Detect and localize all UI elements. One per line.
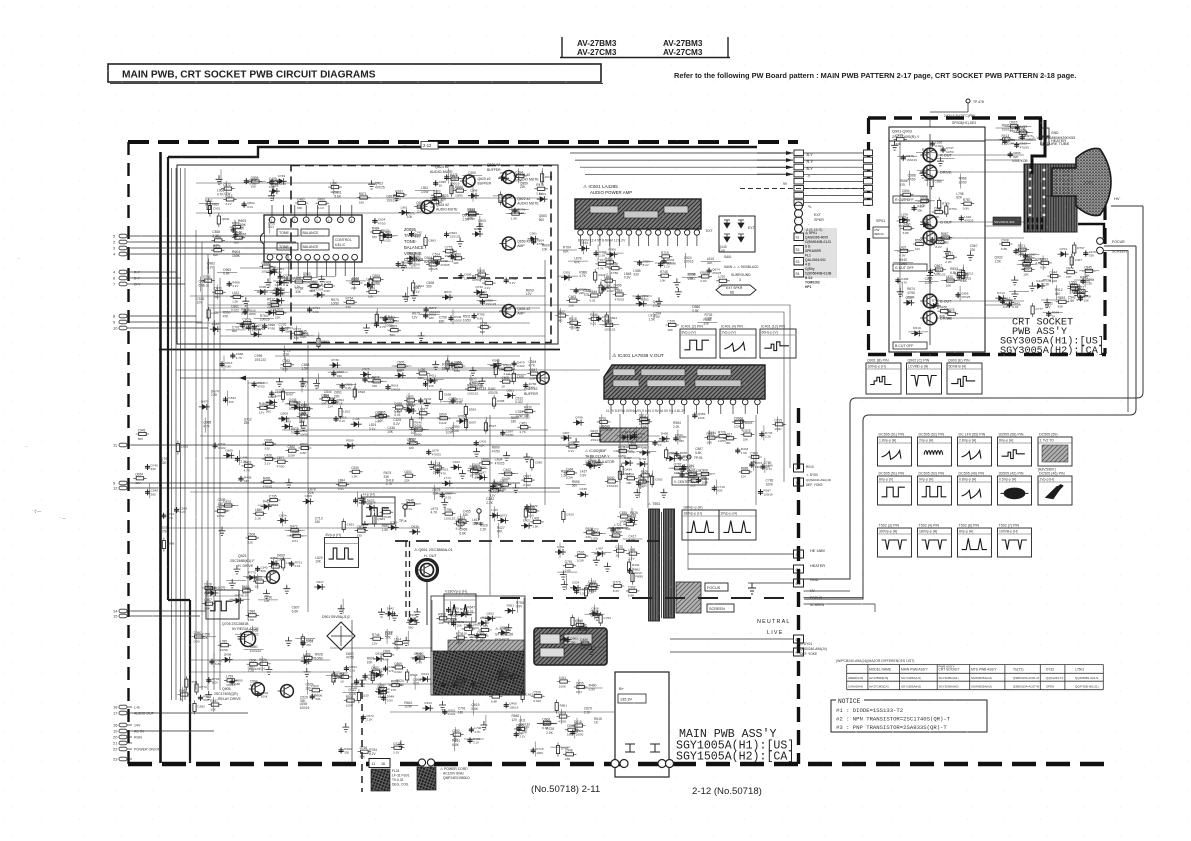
capacitor R872 [424, 307, 429, 313]
wire audio row [205, 197, 545, 199]
resistor L520 [576, 627, 590, 630]
capacitor L540 [255, 566, 260, 572]
picture tube gun grid [1056, 170, 1072, 194]
capacitor R796 [512, 208, 517, 214]
wire [636, 450, 656, 452]
resistor C695 [512, 370, 515, 384]
wire [604, 252, 624, 254]
terminal box J1-7 [794, 193, 804, 199]
wire [387, 660, 389, 675]
crt pin block [1024, 164, 1077, 232]
resistor C583 [281, 363, 295, 366]
capacitor D643 [1007, 302, 1012, 308]
resistor D753 [380, 230, 383, 244]
connector pin 11 [119, 443, 127, 447]
resistor C514 [430, 257, 444, 260]
capacitor R789 [472, 313, 477, 319]
resistor C427 [1070, 254, 1073, 268]
resistor R463 [242, 464, 256, 467]
wire bottom a [190, 659, 330, 661]
wire [431, 260, 451, 262]
resistor Q759 [1021, 259, 1035, 262]
resistor C433 [322, 284, 336, 287]
resistor Q660 [437, 417, 451, 420]
capacitor L442 [246, 325, 251, 331]
ground [469, 367, 476, 376]
capacitor D496 [467, 738, 472, 744]
wire [600, 279, 602, 294]
wire [445, 178, 465, 180]
resistor C852 [462, 627, 476, 630]
diode R906 [607, 252, 618, 258]
wire pin11 run [132, 444, 648, 446]
wire [374, 510, 376, 525]
wire [451, 180, 453, 195]
resistor C808 [698, 472, 712, 475]
resistor Q807 [202, 602, 216, 605]
diode R891 [265, 310, 276, 316]
resistor R887 [317, 335, 320, 349]
resistor C836 [617, 515, 631, 518]
wire [386, 629, 388, 644]
wire [676, 472, 696, 474]
resistor C866 [732, 420, 746, 423]
diode Q670 [199, 404, 210, 410]
connector pin 4 [119, 252, 127, 256]
wire [542, 168, 544, 183]
resistor C545 [609, 534, 623, 537]
capacitor R641 [451, 621, 456, 627]
wire [601, 414, 603, 429]
resistor C409 [267, 181, 281, 184]
wire [270, 291, 290, 293]
ground [1044, 299, 1051, 308]
resistor R833 [466, 212, 480, 215]
resistor C595 [514, 727, 528, 730]
transistor Q902 DRIVE [923, 165, 937, 179]
ic Z0055 inner BALANCE box2 [301, 243, 329, 250]
diode C628 [366, 505, 377, 511]
wire [214, 320, 216, 335]
ic IC401 pin 11 [730, 399, 736, 405]
wire [582, 239, 584, 254]
wire [578, 679, 580, 694]
wire [590, 455, 592, 470]
resistor R846 [588, 294, 602, 297]
wire [643, 468, 645, 483]
wire bundle vertical [195, 230, 197, 690]
wire long c [176, 369, 600, 371]
wire [641, 412, 643, 427]
label box G CUT OFF [893, 264, 927, 271]
resistor L530 [366, 290, 380, 293]
resistor Q502 [491, 485, 505, 488]
wire [909, 171, 911, 186]
wire bottom e [352, 683, 433, 685]
capacitor C697 [1023, 253, 1028, 259]
resistor L797 [716, 279, 730, 282]
ground [402, 293, 409, 302]
wire [586, 533, 606, 535]
isolation dashed line [500, 597, 795, 599]
wire [568, 260, 588, 262]
heater thick wire [1032, 120, 1045, 174]
resistor Q436 [412, 428, 426, 431]
capacitor Q703 [1081, 278, 1086, 284]
terminal W [794, 464, 804, 472]
capacitor R799 [206, 677, 211, 683]
diode C575 [360, 371, 371, 377]
resistor L512 [230, 295, 244, 298]
capacitor R589 [383, 316, 388, 322]
ground [660, 489, 667, 498]
wire [451, 680, 471, 682]
capacitor C533 [449, 362, 454, 368]
wire [916, 151, 936, 153]
capacitor D554 [344, 666, 349, 672]
wire [472, 187, 474, 202]
capacitor R872 [749, 462, 754, 468]
resistor L912 [723, 437, 737, 440]
capacitor R566 [930, 237, 935, 243]
wire vertical v6 [687, 415, 689, 570]
resistor R888 [162, 538, 165, 552]
ic IC401 pin 10 [718, 399, 724, 405]
wire [591, 578, 593, 593]
terminal box J1-1 [794, 150, 804, 156]
wire [435, 460, 437, 475]
wire [557, 571, 577, 573]
resistor D570 [212, 291, 226, 294]
resistor R735 [454, 636, 468, 639]
ground [268, 192, 275, 201]
resistor R793 [945, 203, 948, 217]
wire [586, 646, 606, 648]
resistor R712 [962, 268, 965, 282]
ground [679, 465, 686, 474]
capacitor R634 [661, 258, 666, 264]
resistor L709 [1016, 131, 1029, 134]
resistor Q664 [1074, 294, 1088, 297]
wire [398, 704, 418, 706]
resistor D887 [215, 510, 229, 513]
resistor C845 [1082, 269, 1096, 272]
wire crt horiz b [985, 225, 1021, 227]
wire [606, 273, 608, 288]
resistor Q446 [287, 402, 301, 405]
resistor R896 [436, 617, 450, 620]
capacitor R679 [524, 504, 529, 510]
wire [1051, 269, 1053, 284]
wire [223, 355, 225, 370]
ground [403, 637, 410, 646]
wire crt transistor out [937, 171, 1024, 173]
resistor R796 [442, 512, 456, 515]
wire pin9b run [132, 482, 520, 484]
wire [963, 265, 965, 280]
resistor C707 [376, 688, 390, 691]
wire [485, 715, 487, 730]
capacitor R687 [396, 261, 401, 267]
resistor Q602 [471, 467, 485, 470]
wire [537, 722, 557, 724]
focus box label [705, 583, 728, 591]
diode C444 [1034, 283, 1045, 289]
wire [517, 168, 519, 183]
resistor C895 [376, 414, 390, 417]
resistor R727 [292, 332, 306, 335]
wire [389, 605, 391, 620]
wire [199, 202, 219, 204]
wire [301, 377, 303, 392]
wire [460, 514, 462, 529]
wire [630, 546, 632, 561]
wire [685, 253, 687, 268]
diode R590 [344, 443, 355, 449]
diode R713 [995, 295, 1006, 301]
diode C905 [303, 498, 314, 504]
ground [476, 223, 483, 232]
wire [379, 683, 381, 698]
flyback T551 winding left [649, 509, 660, 621]
capacitor R600 [474, 633, 479, 639]
ground [400, 261, 407, 270]
wire [246, 180, 266, 182]
capacitor R861 [295, 429, 300, 435]
wire [407, 631, 409, 646]
capacitor L520 [930, 141, 935, 147]
diode R758 [627, 434, 638, 440]
ic Z0055 inner TONE box2 [277, 243, 298, 250]
ground [459, 470, 466, 479]
b+ inner marks [625, 744, 635, 752]
crt socket border left dashed [867, 118, 870, 354]
wire [284, 346, 286, 361]
ic Z0055 pin 4 top [303, 217, 309, 223]
wire [439, 462, 441, 477]
wire [585, 613, 605, 615]
diode L961 [399, 210, 410, 216]
heater symbol [1041, 128, 1049, 136]
wire [537, 723, 557, 725]
wire [960, 174, 962, 189]
resistor D980 [192, 635, 206, 638]
wire [571, 315, 573, 330]
ic IC601 pin 4 [607, 230, 612, 235]
resistor R862 [389, 684, 403, 687]
diode R770 [246, 575, 257, 581]
wire [318, 332, 320, 347]
transistor Q423 buffer [537, 372, 549, 384]
wire [525, 473, 527, 488]
resistor C777 [1031, 303, 1034, 317]
wire [376, 308, 378, 323]
resistor R430 [522, 410, 536, 413]
capacitor R496 [238, 476, 243, 482]
wire [1071, 251, 1073, 266]
terminal box J1-5 [794, 178, 804, 184]
resistor R892 [316, 202, 330, 205]
resistor C663 [521, 688, 524, 702]
tp-a testpoint [403, 505, 407, 509]
resistor C434 [326, 400, 340, 403]
wire [420, 406, 422, 421]
resistor C775 [443, 250, 457, 253]
resistor D699 [688, 479, 702, 482]
terminal G [794, 635, 804, 643]
wire pin9 run [132, 321, 202, 323]
wire [530, 503, 532, 518]
wire [520, 716, 522, 731]
transistor Q624 [421, 201, 434, 214]
ic Z0055 pin 25 bottom [333, 254, 339, 260]
ground [457, 238, 464, 247]
wire [261, 656, 263, 671]
capacitor C987 [440, 492, 445, 498]
diode R701 [405, 408, 416, 414]
capacitor R602 [255, 691, 260, 697]
ground [673, 278, 680, 287]
wire audio row [196, 182, 380, 184]
resistor L759 [224, 679, 238, 682]
wire [498, 473, 518, 475]
resistor C951 [208, 203, 211, 217]
resistor C489 [381, 234, 395, 237]
capacitor R592 [244, 178, 249, 184]
capacitor Q788 [353, 498, 358, 504]
wire audio row [282, 429, 548, 431]
wire [764, 458, 766, 473]
wire [269, 273, 271, 288]
wire [570, 288, 590, 290]
resistor C694 [513, 174, 527, 177]
resistor R429 [232, 236, 246, 239]
resistor C944 [301, 634, 304, 648]
wire [482, 616, 502, 618]
resistor Q452 [369, 670, 383, 673]
left vertical bus lower [189, 600, 191, 763]
wire hv source [1111, 205, 1143, 207]
ground [634, 489, 641, 498]
wire [557, 249, 577, 251]
connector pin 21 [119, 741, 127, 745]
resistor C854 [319, 397, 333, 400]
wire [473, 678, 475, 693]
crt socket border right dashed [1103, 204, 1106, 354]
wire [566, 483, 586, 485]
diode in jack [724, 220, 730, 228]
wire [502, 477, 504, 492]
resistor R456 [588, 317, 602, 320]
wire crt horiz c [985, 304, 1021, 306]
wire crt socket top entry [930, 111, 968, 113]
ground [263, 590, 270, 599]
capacitor D586 [611, 527, 616, 533]
diode C524 [570, 585, 581, 591]
transistor Q901 R OUT [923, 148, 937, 162]
ground [944, 248, 951, 257]
resistor Q844 [412, 280, 415, 294]
resistor Q678 [556, 715, 570, 718]
wire [635, 426, 637, 441]
svg-text:· —: · — [60, 516, 66, 520]
diode C719 [448, 254, 459, 260]
resistor R772 [269, 565, 283, 568]
terminal Y [794, 478, 804, 486]
resistor C518 [497, 671, 511, 674]
wire [345, 686, 365, 688]
wire [250, 319, 252, 334]
wire [273, 186, 275, 201]
wire interconnect [804, 195, 864, 197]
crt inner vertical bus [929, 134, 931, 345]
resistor L830 [944, 279, 958, 282]
wire [206, 580, 208, 595]
resistor C880 [933, 241, 947, 244]
resistor R899 [631, 571, 634, 585]
wire [1018, 260, 1038, 262]
resistor D575 [221, 504, 235, 507]
wire [894, 250, 914, 252]
resistor R708 [446, 358, 449, 372]
capacitor R934 [452, 682, 457, 688]
resistor C957 [241, 322, 255, 325]
resistor D583 [464, 403, 467, 417]
resistor C472 [450, 183, 453, 197]
capacitor C513 [252, 382, 257, 388]
wire [607, 527, 627, 529]
wire [296, 326, 298, 341]
wire [498, 523, 500, 538]
wire [470, 375, 472, 390]
wire [1011, 143, 1031, 145]
degauss extension [448, 640, 524, 651]
terminal box P1-7 [864, 193, 873, 199]
wire [1042, 255, 1044, 270]
capacitor D697 [658, 262, 663, 268]
wire [430, 257, 432, 272]
connector pin 18 [119, 705, 127, 709]
resistor D646 [618, 468, 621, 482]
ground [411, 292, 418, 301]
wire [454, 727, 456, 742]
resistor C470 [391, 746, 405, 749]
resistor R487 [639, 420, 653, 423]
resistor C815 [772, 423, 786, 426]
wire [597, 245, 599, 260]
ic Z0055 pin 1 top [269, 217, 275, 223]
wire [285, 529, 305, 531]
resistor C613 [489, 695, 503, 698]
screen thick wire [1078, 224, 1104, 238]
diode Q406 [222, 657, 233, 663]
wire [577, 617, 579, 632]
capacitor Q674 [707, 268, 712, 274]
transistor Q621 [502, 171, 515, 184]
audio mute dashed frame [291, 166, 551, 343]
ground [441, 498, 448, 507]
capacitor C564 [1013, 248, 1018, 254]
wire bundle vertical [219, 278, 221, 690]
terminal box P1-6 [864, 186, 873, 192]
capacitor C896 [363, 673, 368, 679]
capacitor C504 [331, 371, 336, 377]
resistor R995 [466, 213, 480, 216]
wire [632, 295, 652, 297]
connector pin 5 [119, 234, 127, 238]
crt pin block holes [1029, 169, 1032, 172]
diode R470 [233, 598, 244, 604]
